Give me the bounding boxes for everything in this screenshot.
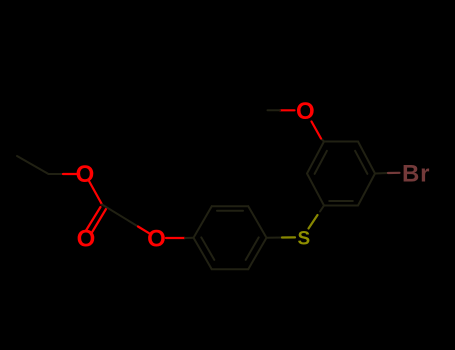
bond S-ring2 sulfur half xyxy=(309,215,318,229)
bond CH2-O1 carbon half xyxy=(49,173,64,175)
benzene ring 1 edge TR-R xyxy=(248,206,266,238)
bond ring2-Br carbon half xyxy=(375,172,388,175)
bond C1-O3 oxygen part xyxy=(138,227,149,234)
double bond C1=O2 line 1 xyxy=(86,207,101,231)
bond O1-C1 (ester O to carbonyl C) xyxy=(89,181,102,205)
svg-text:O: O xyxy=(76,161,95,188)
bond ring1-S sulfur half xyxy=(282,236,295,238)
svg-text:S: S xyxy=(298,228,311,249)
benzene ring 2 edge BL-L xyxy=(307,174,324,206)
svg-text:O: O xyxy=(147,226,166,253)
benzene ring 2 edge L-TL xyxy=(307,142,324,174)
bond ring2-O4 oxygen half xyxy=(312,122,322,139)
bond C1-O3 carbon part xyxy=(102,205,138,227)
bond CH2-O1 oxygen half xyxy=(63,173,77,175)
benzene ring 1 inner double line top xyxy=(217,210,243,212)
bond ring2-Br bromine half xyxy=(388,172,400,174)
bond S-ring2 carbon half xyxy=(320,206,324,212)
benzene ring 2 inner double line upper-right xyxy=(355,151,367,174)
bond CH3-CH2 (ethyl) xyxy=(17,156,49,174)
benzene ring 2 edge BR-BL xyxy=(324,205,358,207)
benzene ring 1 edge BL-L xyxy=(194,238,212,270)
benzene ring 1 edge L-TL xyxy=(194,206,212,238)
bond ring1-S carbon half xyxy=(267,237,283,239)
benzene ring 1 edge BR-BL xyxy=(212,268,249,270)
svg-text:Br: Br xyxy=(402,161,430,188)
double bond C1=O2 line 2 xyxy=(91,209,106,234)
bond O4-CH3 carbon half xyxy=(268,109,281,111)
svg-text:O: O xyxy=(296,98,315,125)
bond ring2-O4 carbon half xyxy=(321,139,324,142)
benzene ring 2 inner double line upper-left xyxy=(315,151,327,174)
benzene ring 2 inner double line bottom xyxy=(329,200,353,202)
bond O3-ring1 oxygen half xyxy=(166,237,185,239)
benzene ring 2 edge TL-TR xyxy=(324,141,358,143)
svg-text:O: O xyxy=(77,226,96,253)
benzene ring 1 edge R-BR xyxy=(248,238,266,270)
benzene ring 2 edge TR-R xyxy=(358,142,375,174)
benzene ring 1 edge TL-TR xyxy=(212,205,249,207)
benzene ring 1 inner double line lower-right xyxy=(246,237,259,260)
benzene ring 1 inner double line lower-left xyxy=(201,237,214,260)
bond O3-ring1 carbon half xyxy=(185,237,194,239)
bond O4-CH3 oxygen half xyxy=(280,109,295,111)
benzene ring 2 edge R-BR xyxy=(358,174,375,206)
